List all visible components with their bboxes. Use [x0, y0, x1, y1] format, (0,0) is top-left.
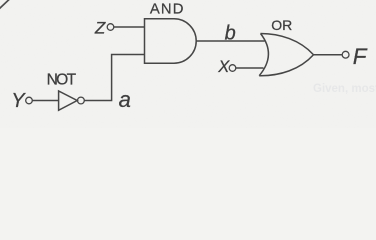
or-gate U3 (OR gate)	[259, 34, 313, 76]
svg-text:Y: Y	[11, 90, 26, 112]
svg-text:NOT: NOT	[47, 72, 77, 89]
wire NOT output up to AND lower input (node a)	[84, 55, 144, 101]
node F terminal	[342, 51, 349, 58]
node Y terminal	[26, 97, 33, 104]
and-gate U2 (AND gate)	[145, 19, 197, 63]
svg-text:b: b	[225, 23, 236, 45]
inverter U1 (NOT gate)	[59, 91, 78, 110]
node X terminal	[229, 65, 236, 72]
svg-text:OR: OR	[271, 17, 292, 33]
svg-text:a: a	[119, 87, 131, 112]
wire OR output to F	[314, 54, 343, 56]
wire Z to AND upper input	[114, 26, 145, 28]
node Z terminal	[107, 24, 114, 31]
corner mark	[0, 0, 10, 9]
page background	[0, 0, 376, 128]
scan noise	[0, 0, 1, 1]
inverter U1 output bubble	[78, 97, 85, 104]
svg-text:Given, most of: Given, most of	[313, 83, 376, 95]
wire Y to NOT input	[32, 100, 58, 102]
wire X to OR lower input	[236, 67, 264, 69]
svg-text:X: X	[217, 58, 230, 76]
svg-text:AND: AND	[150, 1, 184, 17]
svg-text:Z: Z	[94, 19, 106, 38]
svg-text:F: F	[353, 44, 368, 69]
wire AND output to OR upper input (net b)	[196, 40, 264, 42]
